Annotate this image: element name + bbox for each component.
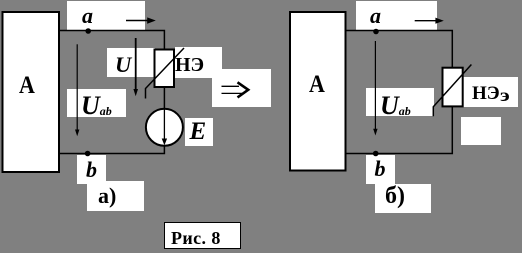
current arrow at node a (right) xyxy=(415,20,437,22)
value label Uab background (right) xyxy=(366,88,434,116)
node a label background (left) xyxy=(67,1,145,29)
value label U background (left) xyxy=(107,48,155,77)
label b (right) xyxy=(375,158,386,180)
nonlinear diagonal stroke НЭ (left) xyxy=(146,48,185,99)
label НЭ (left) xyxy=(175,55,204,75)
label А (left box) xyxy=(19,72,35,98)
node b junction dot (right) xyxy=(373,151,379,157)
label А (right box) xyxy=(309,71,325,97)
nonlinear element НЭ (left) xyxy=(155,50,175,88)
caption а) background xyxy=(87,181,144,211)
label U (left) xyxy=(115,54,131,77)
label b (left) xyxy=(86,159,97,181)
caption Рис. 8 xyxy=(171,229,221,247)
label a (right) xyxy=(370,5,381,27)
label Uab (left) xyxy=(81,93,112,119)
value label E background xyxy=(185,118,213,146)
equivalence double arrow symbol xyxy=(222,82,249,97)
EMF direction arrow inside E xyxy=(163,109,165,139)
label НЭэ (right) xyxy=(472,84,507,103)
voltage arrow Uab (left) xyxy=(76,44,78,130)
network box A (right) xyxy=(290,12,346,171)
value label НЭ background (left) xyxy=(175,47,222,78)
caption б) background xyxy=(375,184,431,213)
node a junction dot (right) xyxy=(373,29,379,35)
wire: top rail a (left) xyxy=(60,31,164,50)
nonlinear diagonal stroke НЭэ (right) xyxy=(433,65,471,117)
node a junction dot (left) xyxy=(85,28,91,34)
value label НЭэ background (right) xyxy=(463,77,518,107)
nonlinear element НЭэ (right) xyxy=(443,68,463,107)
caption а) xyxy=(98,185,116,207)
wire: bottom rail b (right) xyxy=(347,106,453,153)
EMF source E circle xyxy=(146,109,183,146)
node b junction dot (left) xyxy=(85,151,91,157)
caption Рис. 8 box xyxy=(164,222,241,249)
label a (left) xyxy=(82,5,93,27)
network box A (left) xyxy=(3,12,60,172)
label E xyxy=(190,119,207,144)
wire: bottom rail b (left) xyxy=(60,146,164,154)
value label Uab background (left) xyxy=(67,89,126,117)
node b label background (right) xyxy=(366,155,395,184)
voltage arrow Uab (right) xyxy=(374,41,376,129)
node b label background (left) xyxy=(77,155,106,184)
equivalence arrow background xyxy=(212,69,271,107)
wire: top rail a (right) xyxy=(347,31,453,68)
wire: НЭ to E source xyxy=(163,87,165,110)
empty label box (right) xyxy=(461,117,501,145)
node a label background (right) xyxy=(356,1,437,30)
voltage arrow U (left) xyxy=(135,38,137,90)
label Uab (right) xyxy=(380,93,411,119)
current arrow at node a (left) xyxy=(126,20,148,22)
caption б) xyxy=(385,184,405,208)
